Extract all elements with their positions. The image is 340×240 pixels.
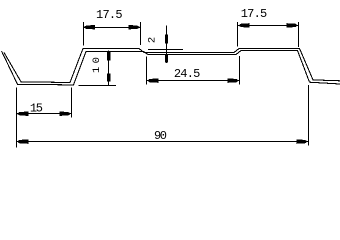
dimension 17.5 top-left dimension line xyxy=(84,27,141,29)
dimension 17.5 top-right dimension line xyxy=(238,25,299,27)
dimension 15 extension line right xyxy=(71,88,73,118)
dimension 10 upper arrow xyxy=(107,52,111,61)
profile bottom surface line xyxy=(2,51,340,85)
dimension 24.5 extension line left xyxy=(146,57,148,85)
dimension 2 lower arrow xyxy=(165,55,168,63)
dimension 17.5 top-left right arrow xyxy=(129,25,141,29)
svg-text:24.5: 24.5 xyxy=(174,67,201,81)
svg-text:90: 90 xyxy=(154,129,167,143)
dimension 15 right arrow xyxy=(60,112,72,116)
dimension 15 extension line left (shared with 90) xyxy=(16,87,18,147)
dimension 90 dimension line xyxy=(17,141,309,143)
dimension 17.5 top-left extension line left xyxy=(83,22,85,45)
dimension 2 step extension line xyxy=(148,49,183,51)
svg-text:17.5: 17.5 xyxy=(241,7,268,21)
dimension 24.5 right arrow xyxy=(228,78,240,82)
dimension 17.5 top-right left arrow xyxy=(238,23,250,27)
dimension 17.5 top-left extension line right xyxy=(140,22,142,45)
profile top surface line xyxy=(4,49,340,83)
svg-text:15: 15 xyxy=(30,102,43,116)
dimension 10 lower extension line xyxy=(79,85,117,87)
dimension 24.5 extension line right xyxy=(239,56,241,84)
dimension 90 left arrow xyxy=(17,139,29,143)
svg-text:17.5: 17.5 xyxy=(96,8,123,22)
dimension 24.5 left arrow xyxy=(147,78,159,82)
dimension 2 upper arrow xyxy=(165,35,168,44)
dimension 90 right arrow xyxy=(296,139,308,143)
dimension 17.5 top-right right arrow xyxy=(287,23,299,27)
dimension 17.5 top-left left arrow xyxy=(84,25,96,29)
dimension 17.5 top-right extension line left xyxy=(237,22,239,47)
dimension 10 vertical dimension line xyxy=(108,51,110,86)
dimension 17.5 top-right extension line right xyxy=(298,22,300,47)
dimension 15 dimension line xyxy=(17,113,72,115)
dimension 90 extension line right xyxy=(308,85,310,146)
dimension 24.5 dimension line xyxy=(147,80,240,82)
dimension 15 left arrow xyxy=(17,112,29,116)
svg-text:2: 2 xyxy=(146,37,158,43)
dimension 10 lower arrow xyxy=(107,74,111,82)
dimension 2 vertical dimension line xyxy=(166,26,168,63)
